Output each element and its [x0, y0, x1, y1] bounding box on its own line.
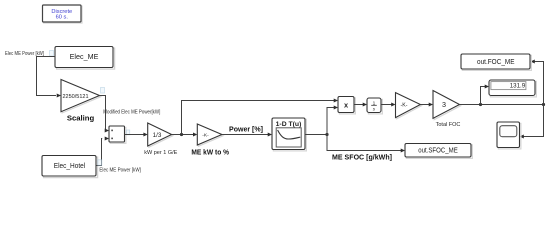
wire -K- -> 3 — [420, 104, 429, 106]
svg-text:60 s.: 60 s. — [56, 14, 69, 20]
subsystem Elec_ME — [55, 47, 115, 70]
svg-text:131.9: 131.9 — [510, 83, 526, 90]
wire Elec_ME -> Scaling — [37, 57, 57, 96]
sum block (Add) — [109, 126, 126, 143]
svg-text:-K-: -K- — [202, 132, 209, 138]
svg-text:out.FOC_ME: out.FOC_ME — [477, 58, 515, 66]
svg-text:Elec_Hotel: Elec_Hotel — [54, 161, 86, 170]
wire rail up -> out.FOC_ME — [535, 62, 544, 105]
subsystem Elec_Hotel — [42, 156, 98, 178]
svg-text:3: 3 — [442, 100, 446, 109]
lookup table 1-D T(u) — [272, 118, 306, 151]
svg-text:-K-: -K- — [401, 103, 408, 109]
display 131.9 — [489, 80, 536, 97]
gain 3 (Total FOC) — [433, 91, 461, 120]
wire branch up to display — [481, 87, 486, 105]
product block x — [338, 97, 355, 114]
svg-text:ME kW to %: ME kW to % — [191, 149, 229, 157]
gain -K- (second) — [396, 93, 422, 119]
node display branch — [479, 103, 482, 106]
wire 3 -> right rail — [460, 104, 544, 106]
svg-text:kW per 1 G/E: kW per 1 G/E — [144, 150, 177, 156]
gain 1/3 (kW per 1 G/E) — [148, 123, 173, 147]
svg-text:1/3: 1/3 — [153, 132, 162, 139]
svg-text:out.SFOC_ME: out.SFOC_ME — [418, 146, 458, 154]
node after lookup — [325, 133, 328, 136]
wire junction down -> out.SFOC_ME — [327, 135, 401, 151]
wire lookup -> junction — [305, 134, 327, 136]
wire integrator -> -K- — [381, 104, 392, 106]
scope — [497, 122, 521, 149]
wire product -> integrator — [354, 104, 363, 106]
integrator 1/s — [367, 98, 382, 114]
wire junction up -> product input 2 — [327, 108, 334, 135]
outport out.FOC_ME — [461, 54, 531, 70]
node after 1/3 — [180, 133, 183, 136]
wire Sum -> 1/3 gain — [125, 134, 145, 136]
badge near Scaling output — [101, 88, 105, 94]
svg-text:1-D T(u): 1-D T(u) — [276, 121, 302, 128]
outport out.SFOC_ME — [405, 144, 472, 159]
wire rail down -> scope — [524, 105, 544, 137]
svg-text:2250/5121: 2250/5121 — [63, 94, 89, 100]
svg-text:ME SFOC [g/kWh]: ME SFOC [g/kWh] — [332, 154, 392, 162]
svg-text:Total FOC: Total FOC — [436, 122, 461, 128]
node right rail — [542, 103, 545, 106]
svg-text:Power [%]: Power [%] — [229, 126, 263, 134]
wire Scaling -> Sum input 1 — [100, 96, 107, 131]
wire -K- -> lookup — [222, 134, 268, 136]
gain Scaling (2250/5121) — [61, 80, 101, 113]
wire 1/3 -> -K- with branch up — [172, 134, 194, 136]
wire branch up to product — [182, 101, 335, 135]
wire Elec_Hotel -> Sum input 2 — [96, 139, 102, 166]
svg-text:Modified Elec ME Power[kW]: Modified Elec ME Power[kW] — [103, 109, 161, 115]
svg-text:Elec ME Power [kW]: Elec ME Power [kW] — [99, 168, 141, 174]
gain ME kW to % (-K-) — [197, 124, 223, 146]
svg-text:Elec_ME: Elec_ME — [70, 52, 99, 61]
signal badge — [50, 51, 54, 57]
badge near sum output — [127, 130, 130, 135]
Discrete sample-time info block — [43, 5, 83, 23]
svg-text:Scaling: Scaling — [67, 113, 95, 122]
badge on Elec_Hotel wire — [98, 160, 102, 166]
